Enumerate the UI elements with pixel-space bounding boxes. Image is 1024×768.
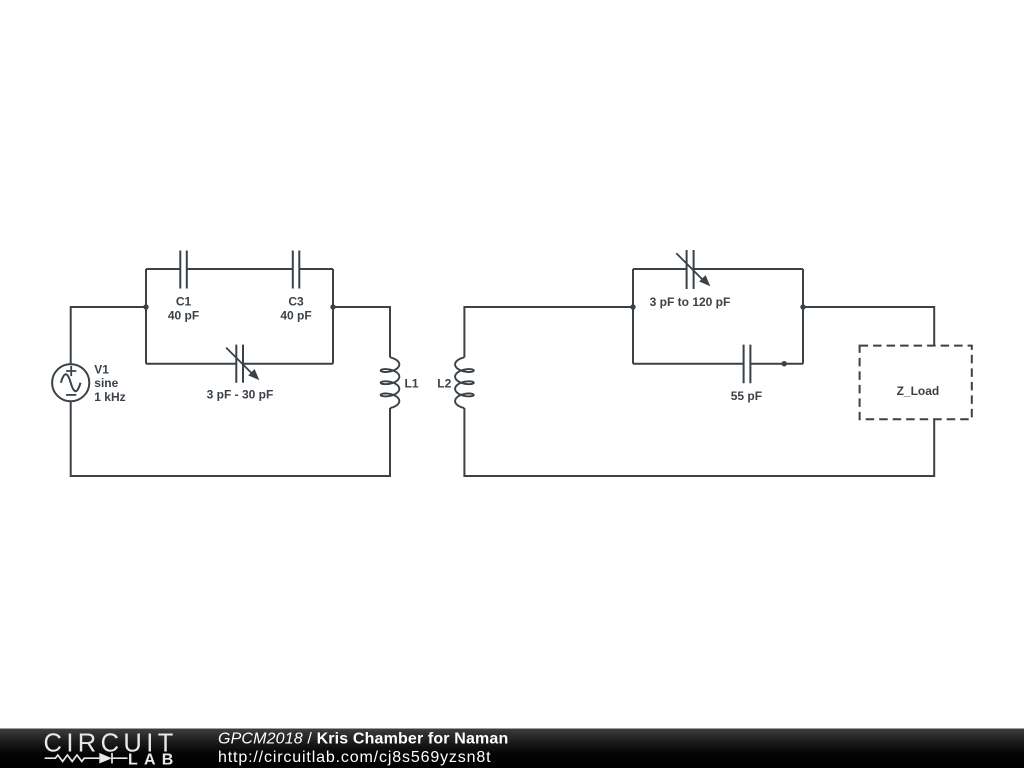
wire (333, 307, 390, 357)
node junction (800, 304, 805, 309)
svg-text:3 pF - 30 pF: 3 pF - 30 pF (207, 388, 274, 402)
svg-text:sine: sine (94, 376, 118, 390)
wire (145, 269, 147, 364)
svg-text:3 pF to 120 pF: 3 pF to 120 pF (650, 295, 731, 309)
svg-text:40 pF: 40 pF (280, 309, 311, 323)
capacitor C3 (293, 251, 300, 289)
variable capacitor 3 pF to 120 pF (676, 250, 710, 289)
svg-text:55 pF: 55 pF (731, 389, 762, 403)
node junction (782, 361, 787, 366)
value label 3 pF to 120 pF (650, 295, 731, 309)
label L1 (405, 377, 419, 391)
label L2 (437, 377, 451, 391)
label Z_Load (897, 384, 940, 398)
value label 55 pF (731, 389, 762, 403)
wire (71, 401, 390, 476)
node junction (630, 304, 635, 309)
svg-text:L2: L2 (437, 377, 451, 391)
wire (633, 363, 803, 365)
svg-text:Z_Load: Z_Load (897, 384, 940, 398)
wire (464, 307, 633, 357)
svg-text:http://circuitlab.com/cj8s569y: http://circuitlab.com/cj8s569yzsn8t (218, 749, 491, 766)
svg-text:C1: C1 (176, 295, 192, 309)
value label 3 pF - 30 pF (207, 388, 274, 402)
node junction (143, 304, 148, 309)
wire (802, 269, 804, 364)
wire (146, 363, 333, 365)
inductor L2 (455, 357, 474, 408)
svg-text:V1: V1 (94, 363, 109, 377)
capacitor C1 (180, 251, 187, 289)
wire (146, 268, 333, 270)
label V1 sine 1kHz (94, 363, 125, 404)
svg-text:GPCM2018 / Kris Chamber for Na: GPCM2018 / Kris Chamber for Naman (218, 731, 508, 748)
wire (71, 307, 146, 364)
voltage source V1 (52, 364, 89, 401)
wire (332, 269, 334, 364)
svg-text:40 pF: 40 pF (168, 309, 199, 323)
load Z_Load (860, 346, 972, 420)
wire (803, 307, 934, 346)
wire (633, 268, 803, 270)
label C1 40 pF (168, 295, 199, 323)
wire (464, 408, 934, 476)
wire (632, 269, 634, 364)
label C3 40 pF (280, 295, 311, 323)
svg-text:LAB: LAB (128, 752, 179, 768)
inductor L1 (381, 357, 400, 408)
node junction (330, 304, 335, 309)
svg-text:L1: L1 (405, 377, 419, 391)
svg-text:1 kHz: 1 kHz (94, 390, 125, 404)
CircuitLab logo (44, 729, 180, 768)
svg-text:C3: C3 (288, 295, 304, 309)
footer bar (0, 729, 1024, 768)
capacitor 55 pF (744, 345, 751, 384)
variable capacitor 3 pF - 30 pF (226, 345, 259, 383)
